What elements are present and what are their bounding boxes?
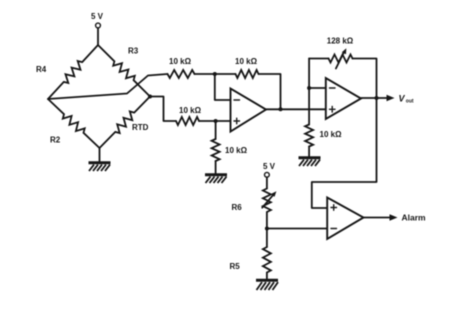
svg-text:10 kΩ: 10 kΩ [225,146,248,155]
resistor R6 (adjustable) [232,189,277,213]
wire to ground (U2) [308,147,310,158]
wire bridge bottom vertex to ground [99,148,101,162]
node divider junction dot [265,227,269,231]
wire U1 output to U2 non-inverting input [266,108,326,110]
node Vout junction dot [375,96,379,100]
ground (U2 resistor) [299,158,321,166]
resistor R5 [230,247,271,273]
wire U3 output to Alarm arrow [364,217,394,219]
node U2 inverting input junction dot [307,86,311,90]
svg-text:R5: R5 [230,262,241,271]
svg-text:Alarm: Alarm [402,213,427,223]
svg-text:out: out [406,98,414,104]
ground (U1 input resistor) [205,175,227,183]
svg-text:10 kΩ: 10 kΩ [169,57,192,66]
wire bridge right node to lower 10k [150,97,176,122]
svg-text:RTD: RTD [132,123,149,132]
wire R6 to divider node [266,212,268,247]
svg-text:R2: R2 [50,136,61,145]
svg-text:5 V: 5 V [263,162,276,171]
node 5V supply terminal (bridge) [91,12,104,45]
resistor 10 kOhm (input to inverting input U1) [168,57,195,78]
wire R5 to ground [266,273,268,280]
node Vout label [399,94,414,105]
wire grounded 10k to ground [215,161,217,174]
resistor 10 kOhm (feedback U1) [235,57,258,78]
wire 128k feedback loop [309,58,328,60]
ground (R5) [256,280,278,290]
wire Vout node down to comparator non-inverting input [312,98,377,208]
wire to node A (inverting input node U1) [195,73,236,75]
svg-text:10 kΩ: 10 kΩ [235,57,258,66]
wire U2 output to Vout arrow [361,97,390,99]
resistor RTD [100,97,151,149]
svg-text:R6: R6 [232,203,243,212]
svg-text:10 kΩ: 10 kΩ [179,106,202,115]
op-amp U1 [231,89,267,132]
ground (bridge) [89,163,111,171]
resistor R3 [98,45,150,97]
svg-text:5 V: 5 V [91,12,104,21]
resistor 10 kOhm (U2 inverting node to ground) [305,125,342,147]
resistor 128 kOhm (U2 feedback, adjustable) [327,37,354,69]
svg-text:R4: R4 [36,65,47,74]
node B junction dot (U1 + input node) [214,119,218,123]
op-amp U3 comparator [327,198,363,240]
node 5V supply terminal (divider) [263,162,276,189]
wire feedback U1 to output node [259,74,281,109]
resistor 10 kOhm (U1 + input to ground) [212,139,248,161]
wire bridge left node to upper 10k row (crosses R3) [48,74,168,99]
op-amp U2 [326,78,361,119]
resistor R2 [48,99,100,148]
wire to U1 non-inverting input [199,120,231,122]
svg-text:10 kΩ: 10 kΩ [320,130,343,139]
wire U2 feedback left vertical (inverting node) [308,59,310,125]
resistor 10 kOhm (input to non-inverting input U1) [176,106,202,125]
node (bridge right output) junction dot [148,95,152,99]
svg-text:V: V [399,94,406,104]
node A junction dot [213,72,217,76]
wire divider node to comparator inverting input [267,228,327,230]
wire node A down to U1 inverting input [215,74,231,100]
resistor R4 [36,45,98,99]
svg-text:128 kΩ: 128 kΩ [327,37,354,46]
wire U2 inverting input stub [309,87,326,89]
node U1 output junction dot [279,107,283,111]
wire node B down to grounded 10k [215,121,217,139]
svg-text:R3: R3 [128,47,139,56]
